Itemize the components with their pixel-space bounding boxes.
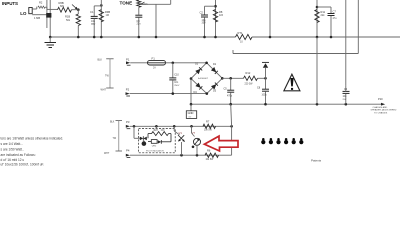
bridge vertex dots <box>190 62 224 95</box>
lamp V7 <box>192 126 201 155</box>
diode D1 <box>211 63 218 74</box>
svg-text:470u: 470u <box>227 96 233 98</box>
svg-text:RT1: RT1 <box>238 31 243 35</box>
svg-text:s are 1/4 Watt...: s are 1/4 Watt... <box>1 142 23 146</box>
label 1 MB <box>34 16 40 20</box>
module diode <box>158 140 171 144</box>
svg-text:TO CHASSIS: TO CHASSIS <box>374 111 388 114</box>
svg-text:3UH: 3UH <box>153 130 158 132</box>
svg-text:tors are 1/8 Watt unless other: tors are 1/8 Watt unless otherwise indic… <box>1 136 64 140</box>
resistor R8 <box>213 10 223 23</box>
resistor R6B <box>58 1 72 12</box>
node C5 top <box>229 77 232 80</box>
ground bus wire <box>50 36 400 38</box>
svg-text:C7: C7 <box>333 10 337 14</box>
wire R6B to node <box>72 9 79 11</box>
module diode pair <box>140 136 147 140</box>
mains cable line <box>109 59 111 88</box>
wire C1 bridge <box>94 5 101 7</box>
bus junction dots <box>49 36 332 39</box>
lamp bottom dots <box>180 154 198 157</box>
dc bus wire <box>191 103 383 105</box>
svg-text:10k 5W: 10k 5W <box>204 130 213 132</box>
svg-text:2kV: 2kV <box>343 99 347 101</box>
pot TONE (vertical) <box>137 0 148 7</box>
svg-text:10n: 10n <box>174 81 179 84</box>
resistor R2 (jack tip) <box>38 0 45 8</box>
svg-text:P3: P3 <box>126 120 130 124</box>
svg-text:WHT: WHT <box>104 153 110 155</box>
module lamp dot <box>142 141 147 146</box>
resistor R7 <box>203 119 216 131</box>
wire vertical A <box>46 0 48 28</box>
diode D3 <box>211 83 218 93</box>
pawn markers row <box>261 138 303 144</box>
dc bus dots <box>190 103 347 106</box>
capacitor C5 <box>224 78 235 104</box>
svg-text:PILOT INDICATOR: PILOT INDICATOR <box>146 149 164 152</box>
node C10 top <box>172 62 175 65</box>
svg-text:WHT: WHT <box>101 88 107 91</box>
svg-text:TONE: TONE <box>120 1 133 6</box>
node input junction <box>77 8 80 11</box>
wire pair2 bridge <box>317 6 331 8</box>
wire vertical x231 <box>230 104 233 155</box>
svg-text:10k 5W: 10k 5W <box>206 159 215 161</box>
capacitor C10 (snubber) <box>169 63 180 94</box>
node blob (jack ground) <box>46 13 51 18</box>
wire pair2 vertical top <box>316 0 318 37</box>
svg-text:C10: C10 <box>174 73 179 76</box>
resistor R12 <box>244 71 258 85</box>
wire lamp top <box>130 125 232 127</box>
node pair2 top <box>316 6 319 9</box>
lamp V1 <box>174 126 185 155</box>
label cable bottom top <box>110 122 115 124</box>
lamp top dots <box>133 125 193 128</box>
wire B+ rail <box>233 50 358 54</box>
svg-text:1 MB: 1 MB <box>34 16 40 20</box>
diode D2 <box>195 63 202 75</box>
svg-text:OO: OO <box>161 130 165 132</box>
resistor R9B <box>99 10 110 22</box>
svg-text:P2: P2 <box>126 87 130 91</box>
warning triangle <box>284 74 300 91</box>
pin P1 <box>126 58 131 66</box>
pin P10 <box>371 97 397 114</box>
svg-text:C2: C2 <box>200 11 204 15</box>
wire jack to R6B <box>45 7 57 9</box>
capacitor C1 <box>90 6 98 37</box>
svg-text:C1: C1 <box>90 10 94 14</box>
svg-text:P10: P10 <box>378 97 383 101</box>
wire pair1 vertical top <box>215 0 217 37</box>
wire drop x156 <box>155 4 157 37</box>
power arrow symbol <box>262 62 269 78</box>
svg-text:Patents: Patents <box>311 159 322 163</box>
svg-text:100u: 100u <box>262 95 268 97</box>
svg-text:BLK: BLK <box>110 122 115 124</box>
svg-text:220 5W: 220 5W <box>245 84 254 86</box>
wire vertical x358 <box>357 0 359 54</box>
svg-text:uf’ 10ux3.5b 1000d’, 100mf uF.: uf’ 10ux3.5b 1000d’, 100mf uF. <box>1 163 45 166</box>
svg-text:R2: R2 <box>39 0 43 4</box>
wire bridge plus <box>222 77 243 79</box>
module rect part <box>148 140 157 148</box>
svg-text:CHASSIS AND: CHASSIS AND <box>373 106 388 109</box>
svg-text:R7: R7 <box>206 119 210 123</box>
bridge label <box>198 78 209 80</box>
svg-text:1M: 1M <box>106 14 109 17</box>
wire bridge minus down <box>190 79 192 105</box>
pin P2 <box>126 87 131 96</box>
node B+ junction <box>264 77 267 80</box>
capacitor C8 <box>257 78 269 104</box>
module caption <box>146 149 164 152</box>
pot R1B <box>65 5 81 38</box>
svg-text:are indicated as Follows:: are indicated as Follows: <box>1 153 36 157</box>
node C1-R9B top <box>100 4 103 7</box>
diode D4 <box>194 83 203 94</box>
pin P3 <box>126 120 131 129</box>
svg-text:UR2: UR2 <box>152 145 157 147</box>
svg-text:LO: LO <box>20 11 27 16</box>
wire R12 to node <box>258 77 266 79</box>
svg-text:4x1N4007: 4x1N4007 <box>198 78 209 80</box>
pin P4 <box>126 149 131 158</box>
svg-text:INPUTS: INPUTS <box>2 1 18 6</box>
svg-text:d uf’ 16 mfd 12 u: d uf’ 16 mfd 12 u <box>1 158 25 162</box>
node lamp right top <box>230 125 233 128</box>
bridge rectifier outline <box>191 63 222 94</box>
wire R9B vertical <box>100 0 102 37</box>
resistor R11 <box>315 10 326 23</box>
label LO <box>20 11 27 16</box>
capacitor C7 <box>328 7 338 37</box>
input jack J1 <box>29 7 47 15</box>
module entry wires <box>134 126 156 138</box>
svg-text:SPEAKER JACKS WIRED: SPEAKER JACKS WIRED <box>371 109 397 112</box>
svg-text:s are 1/50 Watt..: s are 1/50 Watt.. <box>1 147 24 151</box>
wire lamp bottom <box>130 154 232 156</box>
label Patents <box>311 159 322 163</box>
capacitor C9 (tone) <box>135 15 142 37</box>
wire vertical B <box>49 0 51 37</box>
lamp cable symbol <box>104 121 122 155</box>
svg-text:R6: R6 <box>207 149 211 153</box>
wire vertical x345 upper <box>345 0 347 85</box>
capacitor C6 <box>343 85 350 104</box>
notes text block <box>1 136 64 166</box>
label INPUTS <box>2 1 18 6</box>
wire TONE pot down <box>138 7 140 15</box>
svg-text:BLK: BLK <box>98 58 103 61</box>
wire P1 to fuse <box>130 62 147 64</box>
wire fuse to bridge <box>166 62 207 64</box>
mains cable bottom <box>101 88 114 91</box>
wire pair1 bridge <box>205 5 216 7</box>
net label box <box>186 104 196 118</box>
red annotation arrow <box>204 136 238 151</box>
svg-text:GND: GND <box>188 111 194 115</box>
svg-text:P1: P1 <box>126 58 130 62</box>
label TONE <box>120 1 133 6</box>
capacitor C2 <box>200 6 209 37</box>
wire tone top horizontal <box>140 0 171 4</box>
node pair1 top <box>214 5 217 8</box>
fuse F1 <box>148 57 166 70</box>
mains cable symbol top bar <box>106 58 113 60</box>
svg-text:47u: 47u <box>333 17 338 20</box>
svg-text:35V: 35V <box>91 23 96 26</box>
wire vertical x317 lower <box>316 37 318 104</box>
resistor RT1 (series in bus) <box>236 31 253 44</box>
svg-text:2A: 2A <box>153 67 156 70</box>
wire vertical x270 <box>269 0 271 37</box>
module resistor <box>148 130 171 142</box>
ground symbol <box>45 37 57 48</box>
label cable <box>105 75 109 78</box>
svg-text:35V: 35V <box>202 22 207 25</box>
resistor R6 <box>205 149 219 161</box>
wire P2 to bridge <box>130 93 207 95</box>
svg-text:1k5: 1k5 <box>219 14 224 17</box>
svg-text:22n: 22n <box>137 23 142 26</box>
svg-text:P4: P4 <box>126 149 130 153</box>
node C10 bottom <box>172 92 175 95</box>
svg-text:R12: R12 <box>246 71 251 75</box>
label mains top <box>98 58 103 61</box>
dashed module box <box>139 129 176 153</box>
svg-text:250V: 250V <box>174 85 180 87</box>
